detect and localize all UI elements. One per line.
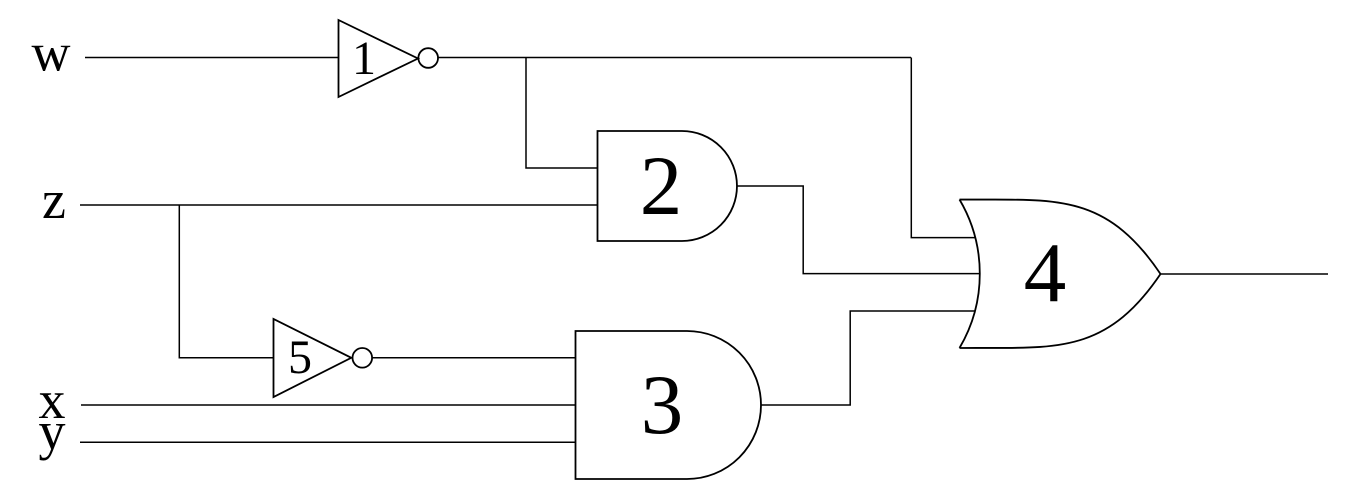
wire junction branch down to AND2 top input: [526, 58, 598, 169]
svg-text:5: 5: [288, 331, 312, 384]
svg-text:w: w: [32, 23, 71, 83]
wire inverter 1 branch down to OR4 top input: [911, 58, 975, 238]
svg-text:y: y: [39, 401, 66, 461]
wire z to AND2 bottom input: [80, 204, 598, 206]
or-gate U4 body: [960, 200, 1161, 349]
svg-text:4: 4: [1024, 226, 1067, 320]
inverter U5 bubble: [353, 348, 373, 368]
and-gate U3 body: [576, 331, 762, 479]
wire OR4 output: [1161, 273, 1329, 275]
wire inverter 5 output to AND3: [373, 357, 576, 359]
inverter U1 bubble: [418, 48, 438, 68]
wire from inverter 1 output to vertical drop: [438, 57, 912, 59]
svg-text:1: 1: [352, 32, 376, 85]
wire w input: [85, 57, 338, 59]
wire y to AND3: [80, 441, 575, 443]
svg-text:2: 2: [640, 139, 683, 233]
wire AND2 output to OR4 middle input: [737, 186, 980, 274]
wire x to AND3: [81, 404, 575, 406]
svg-text:3: 3: [641, 358, 684, 452]
svg-text:z: z: [42, 170, 66, 230]
and-gate U2 body: [598, 131, 737, 241]
wire z branch down to inverter 5: [179, 205, 273, 358]
inverter U1 triangle: [339, 20, 419, 97]
inverter U5 triangle: [274, 319, 352, 397]
wire AND3 output to OR4 bottom input: [761, 311, 975, 405]
